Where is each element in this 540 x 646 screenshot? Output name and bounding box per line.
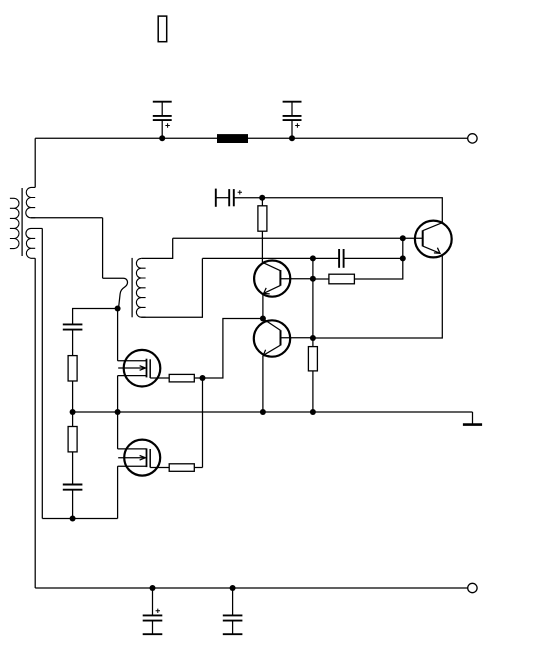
junction	[70, 516, 76, 522]
resistor R3 (M2 gate)	[150, 464, 202, 472]
wire top rail	[35, 137, 468, 139]
mosfet M2	[118, 440, 161, 476]
wire bottom of cap branch	[42, 518, 117, 520]
wire R1 to rail	[72, 381, 74, 412]
wire Q3 emitter down to Q2 base node	[313, 255, 442, 338]
wire node A down to M1 drain	[117, 309, 119, 361]
junction	[310, 335, 316, 341]
junction	[310, 276, 316, 282]
junction	[260, 316, 266, 322]
ground	[463, 412, 482, 425]
wire to Q3 collector	[262, 198, 442, 223]
capacitor C4	[143, 588, 163, 634]
junction	[400, 235, 406, 241]
wire Q2 base	[281, 337, 313, 339]
resistor R4	[68, 412, 77, 485]
capacitor C1	[153, 102, 172, 139]
resistor R2 (M1 gate)	[150, 374, 202, 382]
wire Q1 emitter down	[262, 294, 264, 319]
wire M2 source down	[117, 466, 119, 518]
junction	[289, 135, 295, 141]
T2 winding	[136, 258, 145, 317]
wire left vertical (top)	[34, 138, 36, 187]
wire node A to cap branch	[73, 309, 118, 325]
T1 secondary lower winding	[26, 228, 42, 258]
capacitor C3 (input, horizontal)	[216, 189, 262, 207]
junction	[159, 135, 165, 141]
junction	[260, 409, 266, 415]
junction	[310, 255, 316, 261]
junction	[200, 375, 206, 381]
wire bottom rail	[35, 587, 468, 589]
wire hook into node A	[103, 278, 128, 308]
wire M1 source down	[117, 376, 119, 412]
transformer T1	[10, 187, 42, 258]
terminal (top right)	[468, 134, 477, 143]
resistor R7	[313, 238, 403, 284]
capacitor C6	[313, 249, 403, 268]
T2 core	[131, 258, 133, 317]
junction	[150, 585, 156, 591]
fuse F1 (unconnected body, top)	[158, 16, 167, 42]
wire T1 lower secondary top lead down	[41, 228, 43, 518]
wire M2 drain up	[117, 412, 119, 449]
junction	[70, 409, 76, 415]
resistor R5	[258, 198, 267, 263]
resistor R6	[308, 347, 317, 371]
wire Q2 emitter down	[262, 356, 264, 412]
capacitor C8	[63, 485, 83, 519]
wire T2 bottom lead to cap node	[202, 257, 313, 259]
junction	[259, 195, 265, 201]
transistor Q1	[254, 261, 290, 297]
wire T1 upper secondary to node A	[31, 218, 103, 278]
T2 top lead	[141, 238, 172, 258]
mosfet M1	[118, 350, 161, 387]
transformer T2	[132, 238, 202, 317]
wire ground rail	[73, 411, 473, 413]
capacitor C7	[63, 324, 83, 355]
wire left long vertical	[34, 258, 36, 588]
terminal (bottom right)	[468, 583, 477, 592]
transistor Q2	[254, 319, 290, 357]
junction	[230, 585, 236, 591]
transistor Q3	[403, 221, 452, 258]
junction	[310, 409, 316, 415]
inductor L1 (filled body)	[217, 134, 248, 143]
wire feedback column	[312, 258, 314, 412]
T1 core	[21, 188, 23, 256]
wire gate node up-over to Q2 collector	[203, 319, 263, 379]
junction	[400, 255, 406, 261]
T2 bottom lead	[141, 258, 202, 317]
T1 primary winding	[10, 198, 19, 248]
junction	[115, 409, 121, 415]
wire Q1 base	[280, 278, 313, 280]
wire T2 to Q3 base	[173, 237, 403, 239]
capacitor C5	[223, 588, 243, 634]
T1 secondary upper winding	[26, 187, 35, 217]
resistor R1	[68, 356, 77, 381]
wire gate node down to R3	[202, 378, 204, 468]
capacitor C2	[283, 102, 302, 139]
node A junction	[115, 306, 121, 312]
